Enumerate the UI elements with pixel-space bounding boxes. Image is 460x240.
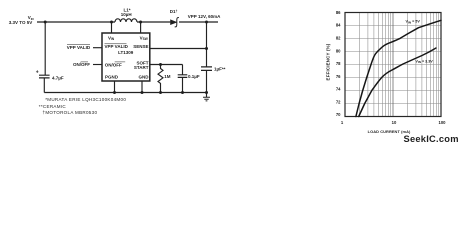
svg-text:†MOTOROLA MBR0530: †MOTOROLA MBR0530 (43, 110, 98, 115)
svg-text:ON/OFF: ON/OFF (105, 62, 122, 67)
svg-text:1µF**: 1µF** (214, 66, 226, 71)
svg-text:82: 82 (336, 36, 341, 41)
svg-text:4.7µF: 4.7µF (52, 75, 64, 80)
svg-text:ON/OFF: ON/OFF (73, 62, 90, 67)
svg-text:GND: GND (139, 75, 150, 80)
svg-text:72: 72 (336, 100, 341, 105)
svg-text:VPP VALID: VPP VALID (105, 44, 129, 49)
svg-text:10µH: 10µH (121, 12, 132, 17)
svg-text:**CERAMIC: **CERAMIC (39, 104, 67, 109)
svg-text:VIN: VIN (108, 35, 115, 41)
svg-text:SENSE: SENSE (133, 44, 148, 49)
svg-text:1: 1 (341, 120, 344, 125)
svg-text:PGND: PGND (105, 75, 119, 80)
svg-text:0.1µF: 0.1µF (188, 74, 200, 79)
svg-text:74: 74 (336, 87, 341, 92)
svg-text:VSW: VSW (140, 35, 148, 41)
svg-text:10: 10 (392, 120, 397, 125)
svg-text:100: 100 (439, 120, 447, 125)
svg-text:86: 86 (336, 10, 341, 15)
svg-text:EFFICIENCY (%): EFFICIENCY (%) (326, 43, 331, 80)
svg-text:VIN = 5V: VIN = 5V (406, 20, 421, 25)
svg-text:*MURATA ERIE LQH3C100K04M00: *MURATA ERIE LQH3C100K04M00 (45, 97, 126, 102)
svg-text:3.3V TO 5V: 3.3V TO 5V (9, 20, 32, 25)
svg-text:START: START (134, 65, 149, 70)
svg-text:70: 70 (336, 112, 341, 117)
svg-text:+: + (36, 70, 39, 76)
svg-text:LT1309: LT1309 (118, 50, 134, 55)
svg-text:78: 78 (336, 61, 341, 66)
svg-text:84: 84 (336, 23, 341, 28)
svg-text:1M: 1M (164, 74, 171, 79)
svg-text:SeekIC.com: SeekIC.com (404, 134, 459, 144)
svg-text:D1†: D1† (170, 9, 178, 14)
svg-text:80: 80 (336, 48, 341, 53)
svg-text:VPP VALID: VPP VALID (67, 45, 91, 50)
svg-text:VPP 12V, 60mA: VPP 12V, 60mA (188, 14, 221, 19)
svg-text:76: 76 (336, 74, 341, 79)
